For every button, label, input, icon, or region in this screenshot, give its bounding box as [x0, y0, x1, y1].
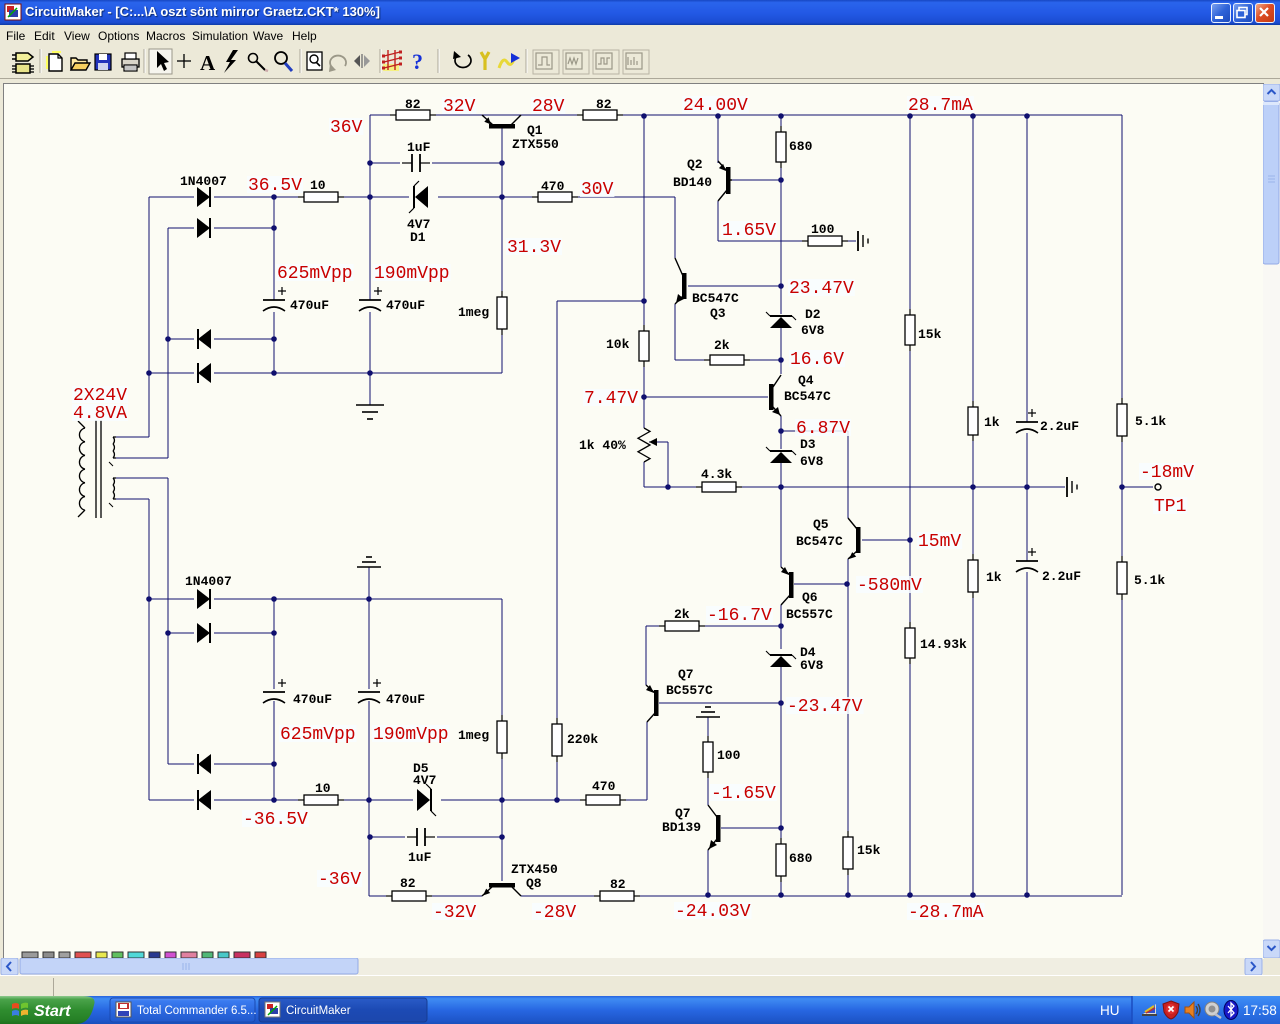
svg-text:Q3: Q3: [710, 306, 726, 321]
wire row8 left: [149, 799, 194, 801]
wire x972 1k2 to bottom rail: [972, 592, 974, 895]
node junction: [554, 797, 560, 803]
svg-text:BC547C: BC547C: [784, 389, 831, 404]
diode D bridge8: [198, 790, 211, 810]
wire D4 to -23.47V: [780, 663, 782, 703]
value label -32V: [432, 903, 477, 923]
wire Q5 base wire 15mV: [862, 539, 910, 541]
value label 625mVpp lower: [279, 725, 357, 745]
resistor R 10 lower: [298, 795, 344, 805]
node junction: [778, 700, 784, 706]
wire dup: [148, 373, 150, 437]
wire row1 D1 to x501: [438, 196, 502, 198]
menu bar: [0, 25, 1280, 46]
capacitor C3 1uF: [402, 154, 430, 172]
svg-text:-23.47V: -23.47V: [787, 697, 863, 717]
svg-text:-36V: -36V: [318, 870, 361, 890]
node junction: [778, 484, 784, 490]
zener diode D1 4V7: [409, 181, 428, 213]
capacitor C6 2.2uF lower: [1016, 548, 1038, 572]
transistor Q3 BC547C: [675, 258, 687, 304]
svg-text:625mVpp: 625mVpp: [277, 264, 353, 284]
svg-text:36.5V: 36.5V: [248, 176, 302, 196]
svg-text:-1.65V: -1.65V: [711, 784, 776, 804]
wire Q1 base lead down: [501, 128, 503, 163]
wire row5 to x501: [369, 598, 502, 600]
wire row3 diode to x273: [214, 338, 274, 340]
wire 2k to 16.6V node: [742, 359, 781, 361]
svg-text:BD140: BD140: [673, 175, 712, 190]
wire bottom rail -24.03V/-28.7mA: [633, 895, 1122, 897]
wire wiper down: [667, 442, 669, 487]
node junction: [778, 892, 784, 898]
resistor R 4.3k: [696, 482, 742, 492]
status bar: [0, 975, 1280, 997]
svg-text:6V8: 6V8: [801, 323, 825, 338]
svg-text:Q4: Q4: [798, 373, 814, 388]
wire pot wiper wire: [649, 441, 668, 443]
value label 7.47V: [583, 389, 639, 409]
svg-text:6.87V: 6.87V: [796, 419, 850, 439]
resistor R 15k: [905, 309, 915, 351]
value label 15mV: [917, 532, 962, 552]
node junction: [366, 596, 372, 602]
resistor R 470: [532, 192, 578, 202]
svg-text:1uF: 1uF: [407, 140, 431, 155]
node junction: [271, 761, 277, 767]
ground (main): [356, 405, 384, 419]
resistor R 82 lower-left: [386, 891, 432, 901]
wire x556 down to 220k: [556, 301, 558, 724]
wire 1uF' left: [369, 836, 405, 838]
wire BD139 emitter down: [707, 850, 709, 895]
node junction: [778, 623, 784, 629]
wire row8 diode to x273b: [214, 799, 283, 801]
svg-text:-32V: -32V: [433, 903, 476, 923]
svg-text:2.2uF: 2.2uF: [1040, 419, 1079, 434]
wire mid ground rail: [781, 486, 1065, 488]
svg-text:1k 40%: 1k 40%: [579, 438, 626, 453]
svg-text:190mVpp: 190mVpp: [373, 725, 449, 745]
wire x780 to 680': [780, 828, 782, 844]
taskbar: [0, 996, 1280, 1024]
svg-text:-36.5V: -36.5V: [243, 810, 308, 830]
wire x368 to 1uF' row: [368, 800, 370, 837]
wire row1 to R470: [502, 196, 539, 198]
zener diode D3 6V8: [766, 447, 796, 463]
svg-text:4V7: 4V7: [413, 773, 436, 788]
svg-text:15k: 15k: [918, 327, 942, 342]
resistor R 680: [776, 126, 786, 168]
wire x501b to 1uF': [501, 800, 503, 837]
wire 1uF C3 right: [432, 162, 502, 164]
wire x643 10k to 7.47V node: [643, 361, 645, 397]
value label 23.47V: [788, 279, 855, 299]
svg-text:ZTX450: ZTX450: [511, 862, 558, 877]
wire row7 diode to x273b: [214, 763, 274, 765]
wire x972 1k to mid rail: [972, 436, 974, 487]
svg-text:4.8VA: 4.8VA: [73, 404, 127, 424]
wire x1121 5.1k2 to bottom rail: [1121, 594, 1123, 895]
ground (mid rail): [1067, 477, 1077, 497]
ground (Q7 emitter): [696, 707, 720, 717]
node row4 left: [146, 370, 152, 376]
wire x780 680 to Q2 base: [780, 163, 782, 180]
node junction: [271, 596, 277, 602]
wire Q6 collector to -16.7V node: [780, 605, 782, 626]
wire transformer sec1 top tap: [116, 436, 149, 438]
node junction: [499, 834, 505, 840]
value label -16.7V: [706, 606, 773, 626]
svg-text:6V8: 6V8: [800, 454, 824, 469]
svg-text:82: 82: [596, 97, 612, 112]
svg-text:2X24V: 2X24V: [73, 386, 127, 406]
node junction: [367, 834, 373, 840]
wire Q4 base wire 7.47V: [644, 396, 768, 398]
svg-text:-580mV: -580mV: [857, 576, 922, 596]
wire gnd lead row5: [368, 567, 370, 599]
svg-text:HU: HU: [1100, 1003, 1120, 1018]
wire Q3 emitter down: [674, 304, 676, 360]
node junction: [778, 283, 784, 289]
wire x501b down to 1meg': [501, 599, 503, 722]
wire tap 30V' to x643: [557, 300, 644, 302]
wire row1 to D1: [370, 196, 409, 198]
svg-text:15k: 15k: [857, 843, 881, 858]
svg-text:470: 470: [592, 779, 616, 794]
wire x643 Q1 collector column: [643, 115, 645, 301]
wire row -16.7V left: [646, 625, 666, 627]
svg-text:470uF: 470uF: [386, 692, 425, 707]
node junction: [146, 596, 152, 602]
svg-text:5.1k: 5.1k: [1134, 573, 1165, 588]
node junction: [705, 892, 711, 898]
svg-text:-28V: -28V: [533, 903, 576, 923]
value label 24.00V: [682, 96, 749, 116]
node junction: [970, 892, 976, 898]
node junction: [367, 370, 373, 376]
wire x368 to cap C5: [368, 599, 370, 689]
zener diode D2 6V8: [766, 312, 796, 328]
wire x780 to 23.47V: [780, 180, 782, 286]
wire stub: [717, 161, 719, 163]
resistor R 82 right: [577, 110, 623, 120]
resistor R 2k lower: [659, 621, 705, 631]
partially visible colored blocks at canvas bottom: [22, 952, 38, 958]
svg-text:-28.7mA: -28.7mA: [908, 903, 984, 923]
node junction: [271, 336, 277, 342]
wire x501 to 1meg: [501, 197, 503, 297]
value label 6.87V: [795, 419, 851, 439]
transistor Q6 BC557C: [781, 567, 794, 605]
wire x273b cap to row7: [273, 701, 275, 764]
node junction: [1024, 113, 1030, 119]
transistor Q7 BC557C: [646, 685, 659, 722]
svg-text:7.47V: 7.47V: [584, 389, 638, 409]
wire row3 left: [168, 338, 194, 340]
value label 625mVpp: [276, 264, 354, 284]
svg-text:17:58: 17:58: [1243, 1003, 1277, 1018]
wire row6 left: [168, 632, 194, 634]
transistor Q4 BC547C: [769, 375, 781, 416]
zener diode D4 6V8: [766, 651, 796, 667]
wire 30V wire: [571, 196, 675, 198]
svg-text:D2: D2: [805, 307, 821, 322]
wire 100 to ground: [842, 240, 856, 242]
wire x780 Q4 emitter to 6.87V: [780, 416, 782, 431]
diode D bridge7: [198, 754, 211, 774]
value label 28V: [531, 97, 565, 117]
wire transformer sec2 bottom tap: [116, 498, 149, 500]
node junction: [778, 825, 784, 831]
diode D bridge5 (1N4007): [197, 589, 210, 609]
wire to 4.3k: [668, 486, 703, 488]
wire x909 rail to 15k: [909, 115, 911, 315]
svg-text:-24.03V: -24.03V: [675, 902, 751, 922]
capacitor C7 470uF lower: [358, 679, 381, 703]
svg-text:1meg: 1meg: [458, 305, 489, 320]
wire 1uF' right: [437, 836, 502, 838]
value label -28.7mA: [907, 903, 985, 923]
node junction: [641, 113, 647, 119]
ground (row5): [357, 557, 381, 567]
wire row6 diode to x273b: [214, 632, 274, 634]
wire x167 down to row6: [167, 478, 169, 633]
svg-text:14.93k: 14.93k: [920, 637, 967, 652]
wire x780 16.6V to Q4 collector: [780, 360, 782, 374]
wire row5 diode to x368: [214, 598, 369, 600]
wire x909 14.93k to bottom rail: [909, 658, 911, 895]
diode D bridge2: [197, 218, 210, 238]
node junction: [907, 892, 913, 898]
svg-text:4.3k: 4.3k: [701, 467, 732, 482]
wire transformer sec2 top tap: [116, 477, 168, 479]
wire x643 pot to 4.3k row: [643, 462, 645, 487]
svg-text:15mV: 15mV: [918, 532, 961, 552]
node junction: [778, 113, 784, 119]
svg-text:2k: 2k: [674, 607, 690, 622]
node junction: [641, 298, 647, 304]
wire row8 to R10': [283, 799, 306, 801]
svg-text:D1: D1: [410, 230, 426, 245]
node junction: [366, 797, 372, 803]
svg-text:625mVpp: 625mVpp: [280, 725, 356, 745]
svg-text:2k: 2k: [714, 338, 730, 353]
value label -18mV: [1139, 463, 1195, 483]
wire Q7 base wire: [659, 702, 781, 704]
resistor R 82 lower-right: [594, 891, 640, 901]
svg-text:Start: Start: [34, 1003, 71, 1020]
svg-text:10: 10: [315, 781, 331, 796]
svg-text:Total Commander 6.5...: Total Commander 6.5...: [137, 1005, 257, 1017]
svg-text:6V8: 6V8: [800, 658, 824, 673]
wire 6.87V wire: [781, 430, 848, 432]
svg-text:Q7: Q7: [678, 667, 694, 682]
wire bottom rail left: [369, 895, 393, 897]
value label -580mV: [856, 576, 923, 596]
svg-text:Q1: Q1: [527, 123, 543, 138]
resistor R 220k: [552, 718, 562, 762]
wire 1uF C3 left: [370, 162, 400, 164]
wire x645 down to Q7 emitter: [645, 626, 647, 685]
wire x643 to 10k: [643, 301, 645, 331]
wire row8 D5 to x501: [441, 799, 502, 801]
value label -36.5V: [242, 810, 309, 830]
wire row5 left: [149, 598, 194, 600]
svg-text:BC547C: BC547C: [796, 534, 843, 549]
svg-text:32V: 32V: [443, 97, 476, 117]
wire to 2k: [675, 359, 711, 361]
wire 1.65V wire: [718, 240, 809, 242]
wire row8 to D5: [369, 799, 413, 801]
wire x1026 mid to cap2: [1026, 487, 1028, 561]
svg-text:470: 470: [541, 179, 565, 194]
wire x369 cap to row4: [369, 312, 371, 373]
wire x780 23.47V to D2: [780, 286, 782, 314]
wire x501 1meg to row4: [501, 330, 503, 373]
wire x780 D3 to mid rail: [780, 463, 782, 487]
wire Q5 emitter down: [847, 559, 849, 584]
wire Q7 collector down: [646, 722, 648, 800]
wire x167 row3 to transformer: [167, 339, 169, 457]
diode D bridge3: [198, 329, 211, 349]
node junction: [271, 370, 277, 376]
node junction: [1119, 484, 1125, 490]
svg-text:1k: 1k: [986, 570, 1002, 585]
svg-text:680: 680: [789, 139, 813, 154]
wire x273 cap to row3: [273, 312, 275, 339]
resistor R 82 left: [390, 110, 436, 120]
svg-text:BC557C: BC557C: [666, 683, 713, 698]
value label -23.47V: [786, 697, 864, 717]
resistor R 1meg: [497, 291, 507, 335]
resistor R 470 lower: [580, 795, 626, 805]
value label -1.65V: [710, 784, 777, 804]
wire 2k' to x780: [698, 625, 781, 627]
wire row4 diode to x273: [214, 372, 274, 374]
wire x148 to transformer top tap: [148, 197, 150, 437]
node junction: [715, 113, 721, 119]
node junction: [641, 394, 647, 400]
wire x643 to pot: [643, 397, 645, 428]
wire x780 6.87V to D3: [780, 431, 782, 449]
wire tap stub: [167, 457, 169, 458]
capacitor C4 2.2uF: [1016, 409, 1038, 433]
svg-text:2.2uF: 2.2uF: [1042, 569, 1081, 584]
title bar: [0, 0, 1280, 25]
wire Q2 collector down: [717, 201, 719, 241]
svg-text:23.47V: 23.47V: [789, 279, 854, 299]
wire x780 rail to 680: [780, 115, 782, 132]
wire x780 to D4: [780, 626, 782, 649]
svg-text:220k: 220k: [567, 732, 598, 747]
resistor R 680 lower: [776, 838, 786, 882]
svg-text:82: 82: [400, 876, 416, 891]
resistor R 10k: [639, 325, 649, 367]
node junction: [271, 194, 277, 200]
wire x501b 1meg' to row8: [501, 753, 503, 800]
wire x909 15k to Q5 base node: [909, 346, 911, 540]
svg-text:TP1: TP1: [1154, 497, 1186, 517]
capacitor C8 1uF lower: [407, 828, 435, 846]
wire x909 to 14.93k: [909, 540, 911, 628]
wire row8 to x556: [502, 799, 557, 801]
transistor Q5 BC547C: [848, 518, 861, 559]
svg-text:Q6: Q6: [802, 590, 818, 605]
wire row1 to R 10: [283, 196, 306, 198]
node junction: [1024, 484, 1030, 490]
node junction: [970, 484, 976, 490]
svg-text:470uF: 470uF: [386, 298, 425, 313]
value label 32V: [442, 97, 476, 117]
svg-text:-16.7V: -16.7V: [707, 606, 772, 626]
svg-text:24.00V: 24.00V: [683, 96, 748, 116]
value label 4.8VA: [72, 404, 128, 424]
value label 28.7mA: [907, 96, 974, 116]
value label 36.5V: [247, 176, 303, 196]
wire x501b 1uF' to Q8 base: [501, 837, 503, 881]
resistor R 14.93k: [905, 622, 915, 664]
wire row8 to 470': [557, 799, 588, 801]
wire x972 rail to 1k: [972, 115, 974, 407]
wire x972 mid to 1k2: [972, 487, 974, 560]
wire 100' to BD139: [707, 773, 709, 805]
wire x780 mid rail to Q6 emitter: [780, 487, 782, 567]
value label TP1: [1153, 497, 1187, 517]
svg-text:BC547C: BC547C: [692, 291, 739, 306]
resistor R 1meg lower: [497, 715, 507, 759]
value label 2X24V: [72, 386, 128, 406]
wire gnd to 100': [707, 717, 709, 742]
wire x1121 rail to 5.1k: [1121, 115, 1123, 404]
wire x780 to BD139 base: [780, 703, 782, 828]
svg-text:100: 100: [717, 748, 741, 763]
wire x167 row2 to row3: [167, 228, 169, 339]
value label 30V: [580, 180, 614, 200]
svg-text:10: 10: [310, 178, 326, 193]
svg-text:28V: 28V: [532, 97, 565, 117]
svg-text:1N4007: 1N4007: [180, 174, 227, 189]
svg-text:Q8: Q8: [526, 876, 542, 891]
value label -28V: [532, 903, 577, 923]
diode D bridge1 (1N4007): [197, 187, 210, 207]
node junction: [778, 357, 784, 363]
svg-text:470uF: 470uF: [290, 298, 329, 313]
resistor R 15k lower: [843, 831, 853, 875]
resistor R 5.1k top: [1117, 398, 1127, 442]
node junction: [778, 177, 784, 183]
node junction: [271, 225, 277, 231]
resistor R 5.1k lower: [1117, 556, 1127, 600]
wire 470' to Q7 collector: [619, 799, 647, 801]
wire 220k to row8: [556, 756, 558, 800]
svg-text:BD139: BD139: [662, 820, 701, 835]
svg-text:190mVpp: 190mVpp: [374, 264, 450, 284]
wire 680' to bottom rail: [780, 876, 782, 895]
wire bottom rail to Q8: [426, 895, 482, 897]
resistor R 10: [298, 192, 344, 202]
node junction: [367, 194, 373, 200]
transistor Q1 ZTX550: [482, 115, 521, 129]
wire TP1 wire: [1122, 486, 1153, 488]
diode D bridge4: [198, 363, 211, 383]
svg-text:82: 82: [610, 877, 626, 892]
wire Q8 to 82': [521, 895, 602, 897]
svg-text:Q7: Q7: [675, 806, 691, 821]
capacitor C1 470uF: [263, 287, 286, 311]
svg-text:16.6V: 16.6V: [790, 350, 844, 370]
wire row1 left: [149, 196, 194, 198]
